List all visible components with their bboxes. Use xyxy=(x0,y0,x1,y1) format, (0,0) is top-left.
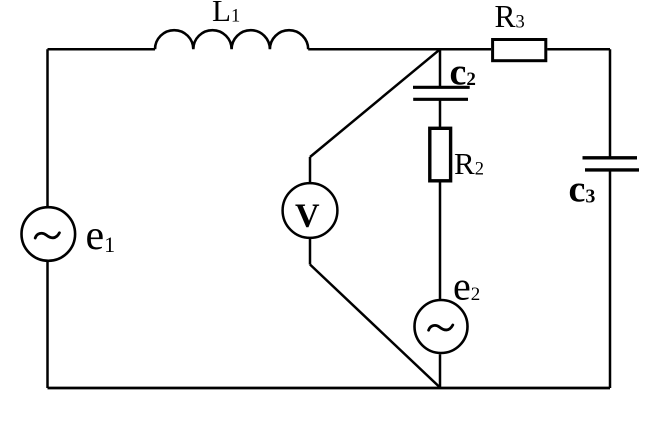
wire C2 to R2 xyxy=(439,99,442,127)
wire top-left segment xyxy=(48,48,156,51)
wire junction to C2 xyxy=(439,49,442,87)
wire diagonal from voltmeter branch to bottom junction xyxy=(310,265,440,388)
wire right side upper xyxy=(609,49,612,158)
source e2 xyxy=(415,300,468,353)
wire diagonal from top junction to voltmeter branch xyxy=(310,49,440,157)
node top junction xyxy=(439,48,441,50)
inductor L1 xyxy=(155,30,308,49)
svg-text:V: V xyxy=(295,197,320,234)
wire e2 to bottom junction xyxy=(439,354,442,388)
node bottom junction xyxy=(439,387,441,389)
sine symbol of e2 xyxy=(429,325,453,330)
wire top middle segment (inductor to R3) xyxy=(308,48,491,51)
capacitor C3 xyxy=(583,158,640,170)
wire left side lower xyxy=(46,262,49,388)
sine symbol of e1 xyxy=(35,233,59,238)
resistor R2 xyxy=(430,128,451,181)
wire R2 to e2 xyxy=(439,183,442,300)
wire voltmeter bottom lead xyxy=(309,239,312,265)
source e1 xyxy=(22,207,76,261)
capacitor C2 xyxy=(413,87,470,99)
voltmeter U1 xyxy=(283,183,338,238)
wire voltmeter top lead xyxy=(309,157,312,182)
wire left side upper xyxy=(46,49,49,206)
wire right side lower xyxy=(609,170,612,388)
resistor R3 xyxy=(493,40,546,61)
wire top-right segment xyxy=(547,48,610,51)
wire bottom xyxy=(48,387,611,390)
